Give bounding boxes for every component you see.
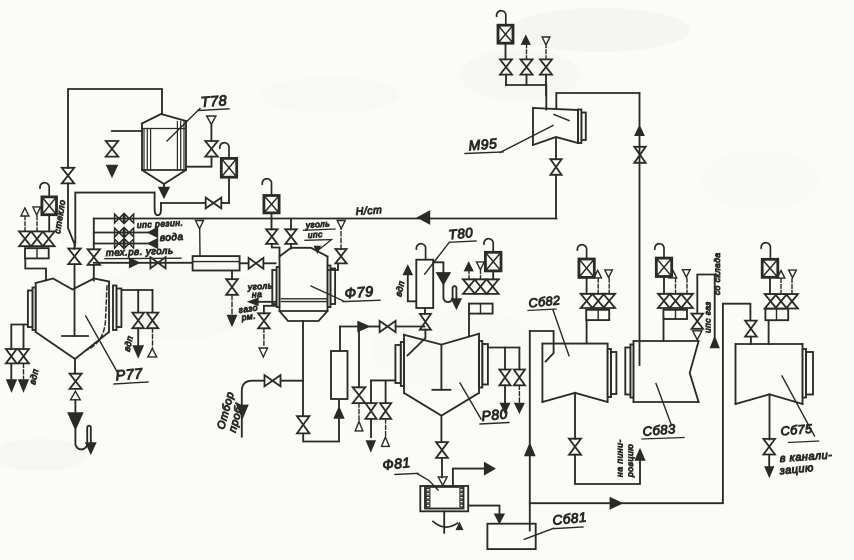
svg-text:ипс газ: ипс газ [703, 301, 713, 333]
svg-text:Ф79: Ф79 [344, 284, 374, 302]
svg-text:Ф81: Ф81 [382, 454, 412, 473]
svg-text:рм.: рм. [240, 311, 257, 323]
svg-text:ровцию: ровцию [625, 444, 635, 478]
svg-text:Н/ст: Н/ст [355, 204, 382, 218]
svg-text:со склада: со склада [712, 253, 722, 295]
svg-text:вода: вода [160, 232, 184, 244]
svg-text:уголь: уголь [304, 218, 330, 230]
svg-text:Р77: Р77 [115, 366, 144, 384]
svg-text:тех.рв. уголь: тех.рв. уголь [106, 246, 174, 259]
svg-text:М95: М95 [468, 135, 498, 153]
svg-text:на: на [251, 289, 262, 300]
svg-text:Т80: Т80 [448, 225, 474, 243]
svg-text:Т78: Т78 [200, 93, 228, 111]
svg-text:на пини-: на пини- [615, 439, 625, 477]
